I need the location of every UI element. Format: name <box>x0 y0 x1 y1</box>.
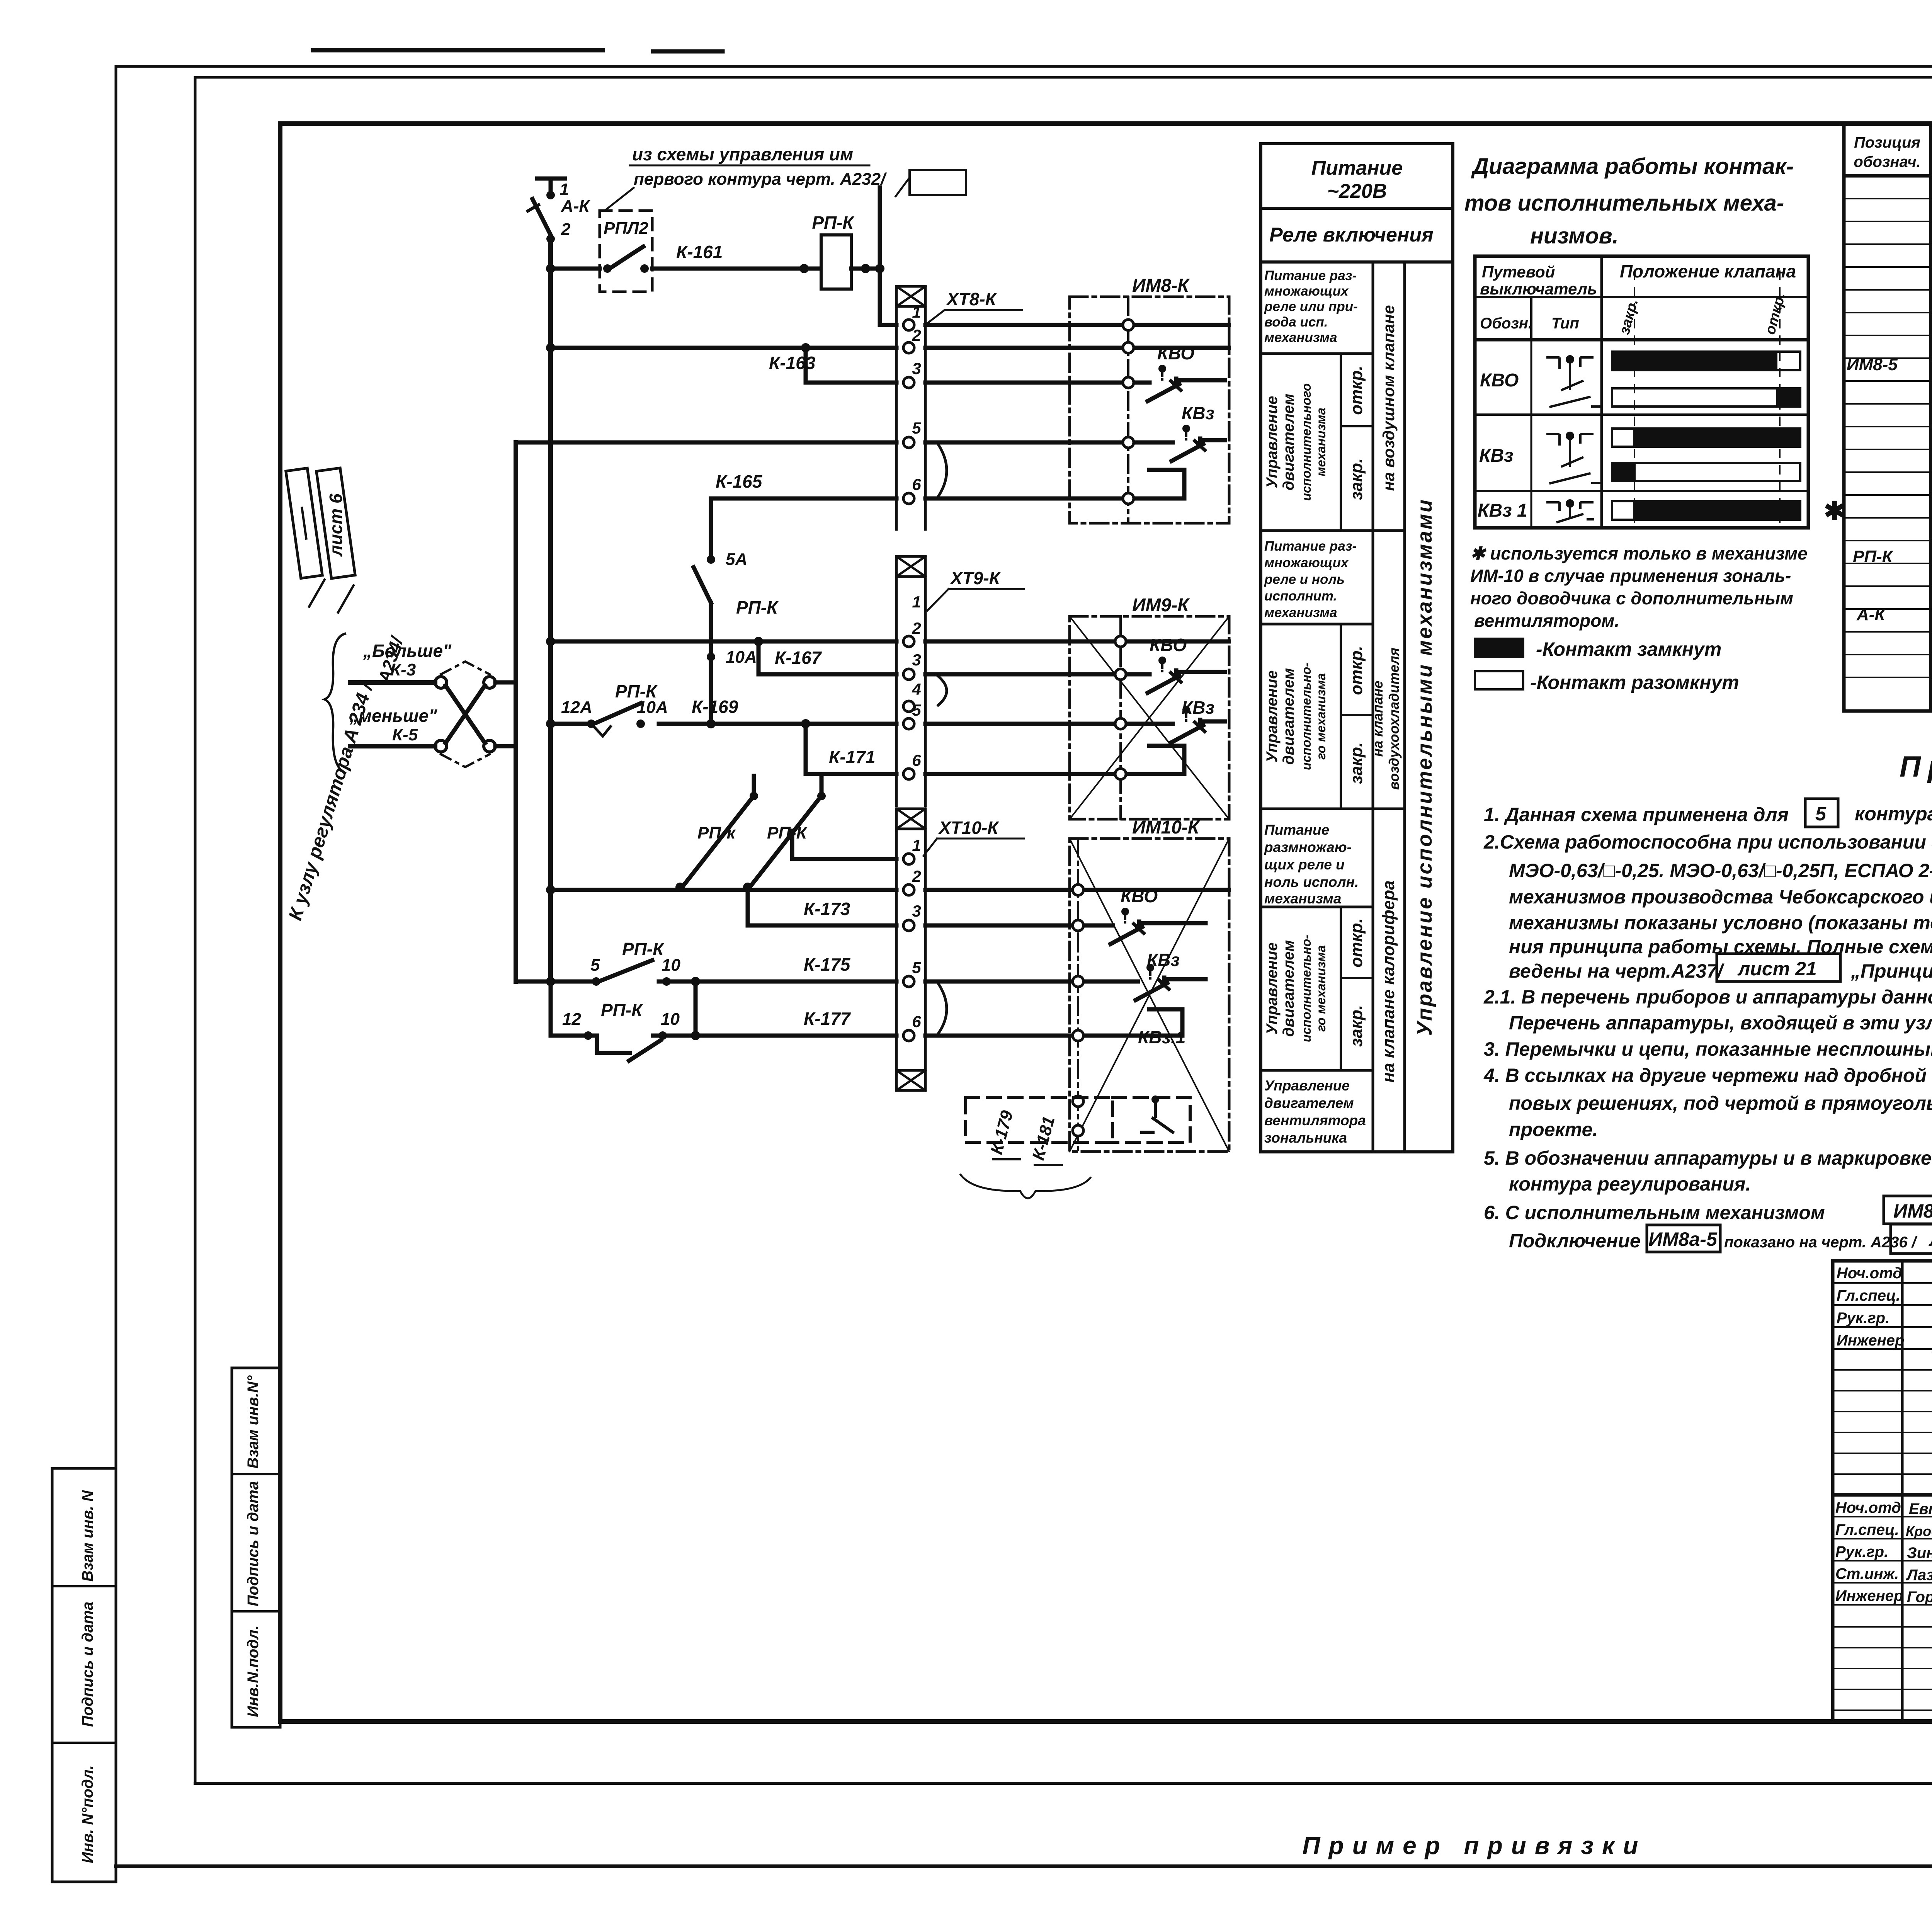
jumper bracket XT10 rows 5-6 <box>938 983 947 1034</box>
terminal strip XT10-K <box>896 809 925 1090</box>
wire XT8 row3 to KVO of IM8 <box>925 381 1150 385</box>
wire K-161 <box>551 267 821 271</box>
svg-text:Обозн.: Обозн. <box>1480 315 1532 332</box>
svg-text:К-163: К-163 <box>769 353 816 373</box>
svg-text:Подпись и дата: Подпись и дата <box>79 1602 96 1727</box>
svg-text:5: 5 <box>1815 803 1827 825</box>
svg-text:„Больше": „Больше" <box>363 641 452 661</box>
svg-text:12А: 12А <box>561 698 592 717</box>
wire XT9 row5 to KVz of IM9 <box>925 722 1173 726</box>
wire V3 up to reference <box>880 187 896 325</box>
actuator IM8-K enclosure <box>1070 297 1229 523</box>
legend <box>1475 638 1739 693</box>
svg-text:Путевой: Путевой <box>1482 263 1555 281</box>
svg-text:выключатель: выключатель <box>1480 280 1597 298</box>
svg-text:множающих: множающих <box>1264 555 1349 570</box>
node on bus at XT8 row2 <box>546 343 555 352</box>
svg-text:размножаю-: размножаю- <box>1264 839 1352 855</box>
sheet reference boxes (list 6) <box>286 468 357 612</box>
svg-text:закр.: закр. <box>1347 742 1366 784</box>
cancellation cross IM9 <box>1070 616 1229 819</box>
terminal circles XT8 <box>903 320 914 504</box>
svg-text:„Принципиальные электрические: „Принципиальные электрические схемы узло… <box>1850 960 1932 982</box>
svg-text:К-173: К-173 <box>804 899 850 919</box>
svg-text:К-167: К-167 <box>775 648 822 668</box>
svg-text:✱: ✱ <box>1824 497 1845 525</box>
svg-text:Ст.инж.: Ст.инж. <box>1835 1565 1899 1582</box>
svg-text:5. В обозначении аппаратуры: 5. В обозначении аппаратуры и в маркиров… <box>1484 1147 1932 1169</box>
svg-text:1. Данная схема применена для: 1. Данная схема применена для <box>1484 804 1789 825</box>
svg-text:лист 6: лист 6 <box>326 493 346 557</box>
svg-text:воздухоохладителя: воздухоохладителя <box>1386 648 1402 790</box>
svg-text:ИМ9-К: ИМ9-К <box>1132 595 1190 616</box>
svg-text:исполнительного: исполнительного <box>1299 383 1313 501</box>
wire K-165 <box>711 498 896 556</box>
zone fan unit (dashed) with KVz1 <box>966 1097 1112 1142</box>
svg-text:ХТ9-К: ХТ9-К <box>949 568 1001 588</box>
svg-text:Взам инв. N: Взам инв. N <box>79 1490 96 1582</box>
svg-text:РП-К: РП-К <box>767 823 808 842</box>
crossover outputs to buses <box>495 682 516 746</box>
svg-text:механизма: механизма <box>1264 891 1341 907</box>
limit switch KVO (IM9) <box>1148 657 1181 693</box>
svg-text:Рук.гр.: Рук.гр. <box>1837 1310 1889 1327</box>
relay contact RPL2 (dashed enclosure) <box>600 211 652 292</box>
limit switch KVz (IM8) <box>1172 425 1205 461</box>
wire XT8 row1 to IM8 <box>925 323 1229 327</box>
svg-text:МЭО-0,63/□-0,25. МЭО-0,63/□-0,: МЭО-0,63/□-0,25. МЭО-0,63/□-0,25П, ЕСПАО… <box>1509 860 1932 881</box>
svg-text:закр.: закр. <box>1347 458 1366 500</box>
svg-text:Тип: Тип <box>1551 315 1579 332</box>
wire XT9 row2 to IM9 <box>925 640 1229 644</box>
svg-text:Управление: Управление <box>1264 942 1281 1035</box>
reference frame box <box>910 170 966 195</box>
svg-text:2: 2 <box>912 867 921 885</box>
svg-text:Позиция: Позиция <box>1854 134 1920 151</box>
footnote <box>1470 543 1808 631</box>
svg-text:3: 3 <box>912 902 921 920</box>
svg-text:Инженер: Инженер <box>1835 1587 1903 1604</box>
svg-text:двигателем: двигателем <box>1280 668 1297 765</box>
actuator IM10-K enclosure <box>1070 839 1229 1152</box>
svg-text:-Контакт замкнут: -Контакт замкнут <box>1536 638 1721 660</box>
svg-text:тов исполнительных меха-: тов исполнительных меха- <box>1464 191 1784 216</box>
svg-text:щих реле и: щих реле и <box>1264 857 1345 873</box>
svg-text:6. С исполнительным механизм: 6. С исполнительным механизмом <box>1484 1202 1825 1223</box>
svg-text:реле и ноль: реле и ноль <box>1264 572 1345 587</box>
wire K-169 with RP-K contact 12A/10A <box>551 722 896 726</box>
node on bus at K-175 <box>546 977 555 986</box>
svg-text:4. В ссылках на другие черт: 4. В ссылках на другие чертежи над дробн… <box>1483 1065 1932 1086</box>
svg-text:1: 1 <box>912 593 921 611</box>
svg-text:Управление: Управление <box>1264 670 1281 763</box>
svg-text:К-161: К-161 <box>676 242 723 262</box>
svg-text:Перечень аппаратуры, входящей: Перечень аппаратуры, входящей в эти узлы… <box>1509 1012 1932 1034</box>
wire Menshe K-5 input <box>350 744 435 748</box>
svg-text:К-5: К-5 <box>392 725 418 744</box>
wire XT10 row2 to IM10 <box>925 888 1229 892</box>
svg-text:Подключение: Подключение <box>1509 1230 1641 1252</box>
limit switch KVz (IM10) <box>1136 964 1169 1000</box>
svg-text:из схемы управления им: из схемы управления им <box>632 144 853 164</box>
svg-text:ИМ-10 в случае применения зона: ИМ-10 в случае применения зональ- <box>1470 566 1791 586</box>
wire XT10 row1 <box>792 831 896 859</box>
wire XT8 row5 from crossover bus V2 <box>516 441 896 445</box>
svg-text:КВз: КВз <box>1182 403 1214 423</box>
svg-text:двигателем: двигателем <box>1264 1095 1354 1111</box>
wire XT10 row3 to KVO of IM10 <box>925 924 1113 928</box>
svg-text:ИМ8а-5: ИМ8а-5 <box>1648 1228 1718 1250</box>
actuator IM9-K enclosure <box>1070 616 1229 819</box>
svg-text:КВз: КВз <box>1479 446 1514 466</box>
svg-text:РП-К: РП-К <box>601 1000 643 1020</box>
terminal strip XT9-K <box>896 556 925 806</box>
wire Bolshe K-3 input <box>350 680 435 685</box>
svg-text:Гл.спец.: Гл.спец. <box>1835 1521 1899 1538</box>
svg-text:К-175: К-175 <box>804 954 851 975</box>
svg-text:12: 12 <box>562 1010 581 1029</box>
wire bus V1 <box>548 239 553 981</box>
svg-text:Питание: Питание <box>1311 157 1403 179</box>
svg-text:К-171: К-171 <box>829 747 875 767</box>
svg-text:на клапане: на клапане <box>1370 680 1386 757</box>
svg-text:показано на черт. А236 /: показано на черт. А236 / <box>1724 1234 1918 1251</box>
svg-text:КВО: КВО <box>1150 635 1187 655</box>
svg-text:низмов.: низмов. <box>1530 223 1619 248</box>
svg-text:Рук.гр.: Рук.гр. <box>1835 1543 1888 1560</box>
svg-text:ИМ8-К: ИМ8-К <box>1132 276 1190 296</box>
svg-text:Инженер: Инженер <box>1837 1332 1904 1349</box>
svg-text:РПЛ2: РПЛ2 <box>604 219 648 238</box>
svg-text:механизма: механизма <box>1264 330 1337 345</box>
svg-text:ИМ10-К: ИМ10-К <box>1132 817 1201 838</box>
wire XT8 row6 return <box>925 470 1184 498</box>
svg-text:контура регулирования.: контура регулирования. <box>1509 1173 1751 1195</box>
svg-text:К-169: К-169 <box>692 697 738 717</box>
svg-text:~220В: ~220В <box>1327 180 1387 202</box>
svg-text:го механизма: го механизма <box>1314 673 1328 760</box>
svg-text:Диаграмма работы контак-: Диаграмма работы контак- <box>1471 154 1794 179</box>
svg-text:Гл.спец.: Гл.спец. <box>1837 1287 1900 1304</box>
wire XT9 row6 return <box>925 746 1184 774</box>
svg-text:Пример привязки: Пример привязки <box>1303 1832 1647 1859</box>
svg-text:5: 5 <box>912 419 921 437</box>
svg-text:на клапане калорифера: на клапане калорифера <box>1379 880 1398 1082</box>
svg-text:двигателем: двигателем <box>1280 394 1297 490</box>
limit switch KVz1 <box>1151 1095 1159 1103</box>
svg-text:3: 3 <box>912 359 921 378</box>
crossover selector <box>435 677 495 752</box>
svg-text:Зингерман: Зингерман <box>1907 1544 1932 1561</box>
svg-text:Питание: Питание <box>1264 822 1329 838</box>
svg-text:исполнит.: исполнит. <box>1264 589 1337 604</box>
bars <box>1612 352 1800 520</box>
limit switch KVz (IM9) <box>1172 706 1205 742</box>
svg-text:Питание раз-: Питание раз- <box>1264 268 1357 283</box>
svg-text:РП-К: РП-К <box>622 939 665 959</box>
svg-text:го механизма: го механизма <box>1314 945 1328 1032</box>
lower loop with RP-K contact 12/10 <box>551 981 696 1036</box>
svg-text:ИМ8-5: ИМ8-5 <box>1847 355 1898 374</box>
svg-text:вентилятором.: вентилятором. <box>1474 611 1619 631</box>
svg-text:Управление: Управление <box>1264 1078 1350 1094</box>
svg-text:РП-К: РП-К <box>736 597 779 617</box>
terminal strip XT8-K <box>896 286 925 529</box>
svg-text:механизма: механизма <box>1314 408 1328 476</box>
svg-text:Взам инв.N°: Взам инв.N° <box>245 1375 262 1469</box>
svg-text:Лазоренко: Лазоренко <box>1906 1567 1932 1584</box>
svg-text:Реле включения: Реле включения <box>1269 224 1434 246</box>
svg-text:6: 6 <box>912 1012 921 1031</box>
left edge table inner <box>232 1368 280 1727</box>
svg-text:вода исп.: вода исп. <box>1264 315 1328 330</box>
wire K-173 <box>748 890 896 925</box>
svg-text:на воздушном клапане: на воздушном клапане <box>1379 305 1398 491</box>
svg-text:КВО: КВО <box>1157 343 1194 363</box>
svg-text:проекте.: проекте. <box>1509 1119 1598 1140</box>
svg-text:РП-К: РП-К <box>812 213 854 233</box>
svg-text:двигателем: двигателем <box>1280 940 1297 1037</box>
svg-text:реле или при-: реле или при- <box>1264 299 1358 314</box>
svg-text:ноль исполн.: ноль исполн. <box>1264 874 1359 890</box>
svg-text:Управление: Управление <box>1264 396 1281 488</box>
relay coil RP-K <box>821 235 851 289</box>
svg-text:множающих: множающих <box>1264 284 1349 299</box>
svg-text:Инв.N.подл.: Инв.N.подл. <box>245 1625 262 1717</box>
svg-text:10А: 10А <box>637 698 668 717</box>
node on bus at XT9 row2 <box>546 637 555 646</box>
svg-text:Примечания: Примечания <box>1900 750 1932 783</box>
svg-text:К-177: К-177 <box>804 1009 851 1029</box>
node on bus at K-169 <box>546 719 555 728</box>
jumper bracket XT9 rows 3-4 <box>938 676 947 705</box>
mini limit-switch pictograms in Tip column <box>1546 356 1600 522</box>
svg-text:КВО: КВО <box>1480 370 1519 391</box>
svg-text:2.1. В перечень приборов и ап: 2.1. В перечень приборов и аппаратуры да… <box>1483 986 1932 1008</box>
svg-text:10А: 10А <box>726 648 757 667</box>
svg-text:ХТ8-К: ХТ8-К <box>946 289 997 309</box>
svg-text:РП-к: РП-к <box>697 823 736 842</box>
svg-text:3: 3 <box>912 651 921 669</box>
svg-text:Горшенина: Горшенина <box>1907 1589 1932 1606</box>
svg-text:А-К: А-К <box>1856 605 1886 624</box>
relay contacts RP-K pair above XT10 row2 <box>752 776 756 792</box>
svg-text:Кростошевский: Кростошевский <box>1906 1523 1932 1539</box>
svg-text:вентилятора: вентилятора <box>1264 1112 1366 1128</box>
internal common line IM8 <box>1127 297 1129 523</box>
svg-text:2: 2 <box>561 220 571 239</box>
svg-text:лист 20: лист 20 <box>1929 1228 1932 1250</box>
svg-text:ХТ10-К: ХТ10-К <box>938 818 999 838</box>
svg-text:ного доводчика с дополнительны: ного доводчика с дополнительным <box>1470 588 1793 608</box>
wire K-171 <box>806 724 896 774</box>
wire K-175 with RP-K contact 5/10 <box>516 980 896 984</box>
svg-text:5: 5 <box>590 956 600 975</box>
node on bus at XT10 row2 <box>546 885 555 895</box>
svg-text:✱ используется только в механи: ✱ используется только в механизме <box>1470 543 1808 563</box>
wire XT10 row5 to KVz of IM10 <box>925 980 1138 984</box>
svg-text:К-165: К-165 <box>716 471 763 492</box>
svg-text:повых решениях, под чертой: повых решениях, под чертой в прямоугольн… <box>1509 1092 1932 1114</box>
wire XT8 row2 from bus <box>551 346 896 350</box>
jumper bracket XT8 rows 5-6 <box>938 444 947 497</box>
svg-text:КВз.1: КВз.1 <box>1138 1027 1185 1047</box>
leader line to RPL2 <box>605 188 634 211</box>
svg-text:закр.: закр. <box>1347 1005 1366 1047</box>
svg-text:3. Перемычки и цепи, показа: 3. Перемычки и цепи, показанные несплошн… <box>1484 1038 1932 1060</box>
svg-text:механизмы показаны условно (: механизмы показаны условно (показаны тол… <box>1509 912 1932 934</box>
svg-text:РП-К: РП-К <box>1853 547 1894 566</box>
svg-text:Питание раз-: Питание раз- <box>1264 539 1357 554</box>
wire K-167 <box>759 641 896 674</box>
junction circles on IM8 common <box>1123 320 1134 504</box>
scan artifact: torn top edge <box>313 50 723 51</box>
svg-text:исполнительно-: исполнительно- <box>1299 663 1313 770</box>
svg-text:Ноч.отд: Ноч.отд <box>1835 1499 1901 1516</box>
circuit breaker A-K blade <box>532 199 551 235</box>
power source T1 <box>537 179 565 193</box>
svg-text:КВз: КВз <box>1182 697 1214 718</box>
svg-text:2.Схема работоспособна при исп: 2.Схема работоспособна при использовании… <box>1483 831 1932 853</box>
svg-text:10: 10 <box>662 956 680 975</box>
cancellation cross IM10 <box>1070 839 1229 1152</box>
limit switch KVO (IM10) <box>1111 908 1144 944</box>
svg-text:первого контура черт. А232/: первого контура черт. А232/ <box>634 170 887 189</box>
svg-text:1: 1 <box>912 836 921 854</box>
svg-text:исполнительно-: исполнительно- <box>1299 935 1313 1042</box>
svg-text:1: 1 <box>560 180 569 199</box>
svg-text:ИМ8-5: ИМ8-5 <box>1893 1200 1932 1222</box>
svg-text:лист 21: лист 21 <box>1737 958 1816 980</box>
svg-text:4: 4 <box>912 680 921 698</box>
svg-text:Управление исполнительными: Управление исполнительными механизмами <box>1413 498 1436 1036</box>
svg-text:6: 6 <box>912 475 921 493</box>
svg-text:А-К: А-К <box>561 197 590 216</box>
brace <box>325 634 345 773</box>
svg-text:5: 5 <box>912 958 921 976</box>
svg-text:КВз 1: КВз 1 <box>1478 500 1527 521</box>
svg-text:1: 1 <box>912 303 921 321</box>
svg-text:Инв. N°подл.: Инв. N°подл. <box>79 1765 96 1863</box>
wire K-163 <box>806 348 896 383</box>
svg-text:5А: 5А <box>726 550 747 569</box>
svg-text:механизмов производства Чебокс: механизмов производства Чебоксарского и … <box>1509 886 1932 908</box>
limit switch KVO (IM8) <box>1148 365 1181 401</box>
wire XT10 row2 from bus <box>551 888 896 892</box>
svg-text:6: 6 <box>912 751 921 769</box>
wire XT8 row5 to KVz of IM8 <box>925 441 1173 445</box>
svg-text:Евтушенко: Евтушенко <box>1909 1500 1932 1517</box>
svg-text:ведены на черт.А237/: ведены на черт.А237/ <box>1509 960 1725 982</box>
svg-text:Положение клапана: Положение клапана <box>1620 261 1796 281</box>
svg-text:Подпись и дата: Подпись и дата <box>245 1481 262 1606</box>
svg-text:КВО: КВО <box>1121 886 1158 906</box>
wire XT10 row6 return <box>925 1009 1182 1036</box>
svg-text:КВз: КВз <box>1147 950 1180 970</box>
svg-text:откр.: откр. <box>1347 366 1366 415</box>
bottom band separator line <box>195 1782 1932 1785</box>
svg-text:10: 10 <box>661 1010 680 1029</box>
wire XT9 row3 to KVO of IM9 <box>925 672 1150 677</box>
svg-text:контура доводчиков: контура доводчиков <box>1855 803 1932 825</box>
wire XT8 row2 to IM8 <box>925 346 1229 350</box>
fuse-switch 5A/10A on V4 <box>707 555 715 564</box>
svg-text:механизма: механизма <box>1264 605 1337 620</box>
svg-text:откр.: откр. <box>1347 646 1366 695</box>
wire bus V2 <box>514 442 518 981</box>
svg-text:-Контакт разомкнут: -Контакт разомкнут <box>1530 672 1739 693</box>
node on bus at K-161 <box>546 264 555 273</box>
svg-text:зональника: зональника <box>1264 1130 1347 1146</box>
drawing frame <box>280 124 1932 1721</box>
svg-text:Ноч.отд: Ноч.отд <box>1837 1265 1902 1282</box>
wire XT9 row2 from bus <box>551 640 896 644</box>
left edge table outer (Inv N podl / Podpis i data / Vzam inv N) <box>52 1468 116 1882</box>
svg-text:откр.: откр. <box>1347 918 1366 967</box>
wire K-177 to XT10 row6 <box>696 1034 896 1038</box>
svg-text:2: 2 <box>912 619 921 637</box>
svg-text:обознач.: обознач. <box>1854 153 1920 170</box>
